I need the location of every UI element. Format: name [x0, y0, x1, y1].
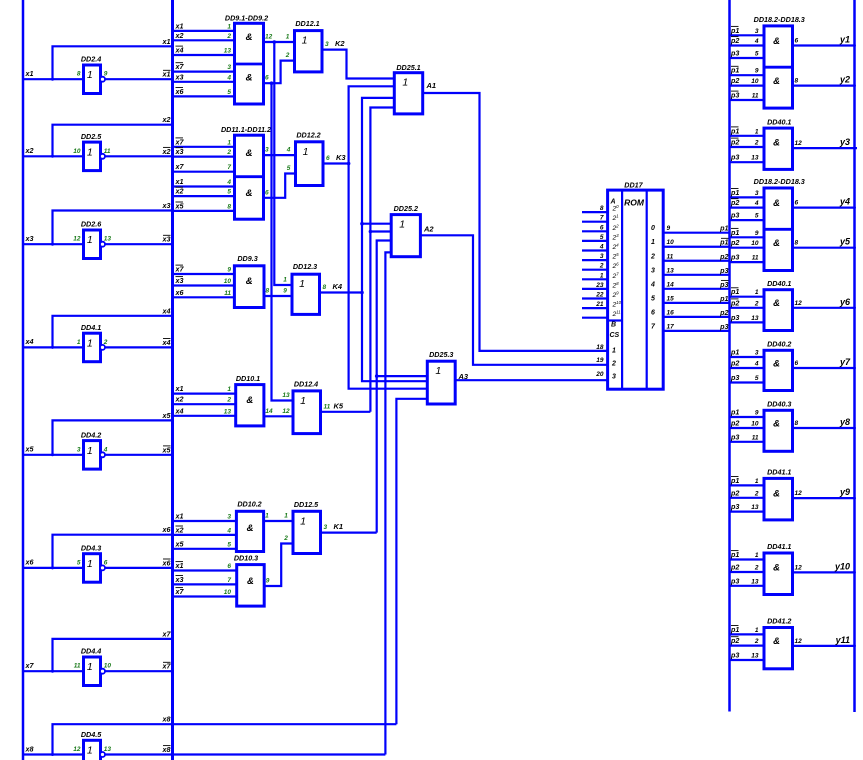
- wire DD9.2 output down to DD12.4 input 1: [272, 83, 294, 400]
- svg-text:5: 5: [755, 375, 759, 382]
- svg-text:6: 6: [600, 224, 604, 231]
- svg-text:x6: x6: [25, 558, 35, 567]
- svg-text:y8: y8: [839, 417, 850, 427]
- output gate DD18.2-DD18.3 (y1/y2): [730, 15, 856, 108]
- svg-text:3: 3: [325, 41, 329, 48]
- svg-text:p2: p2: [730, 563, 739, 572]
- svg-text:p3: p3: [730, 211, 739, 220]
- svg-text:y9: y9: [839, 487, 850, 497]
- svg-text:A1: A1: [426, 81, 437, 90]
- far-right output trunk line: [853, 0, 856, 712]
- svg-text:25: 25: [612, 252, 620, 261]
- junction K5 to DD25.2 input 2: [369, 230, 373, 234]
- output gate DD41.2 (y11): [730, 617, 856, 669]
- svg-text:DD17: DD17: [624, 181, 643, 190]
- svg-text:DD41.1: DD41.1: [767, 542, 791, 551]
- svg-text:p3: p3: [730, 373, 739, 382]
- svg-text:p1: p1: [730, 188, 739, 197]
- svg-text:1: 1: [283, 277, 287, 284]
- svg-text:p1: p1: [730, 126, 739, 135]
- AND gate DD9.1-DD9.2: [173, 14, 273, 104]
- svg-text:4: 4: [754, 38, 759, 45]
- svg-text:x1: x1: [175, 21, 184, 30]
- wire A3 from DD25.3 to ROM address input 3: [455, 379, 607, 381]
- svg-text:21: 21: [612, 214, 619, 223]
- OR gate DD12.5: [283, 500, 343, 554]
- svg-text:DD4.5: DD4.5: [81, 730, 102, 739]
- svg-text:3: 3: [324, 524, 328, 531]
- svg-text:1: 1: [87, 337, 93, 349]
- svg-text:1: 1: [87, 661, 93, 673]
- output gate DD41.1 (y10): [730, 542, 856, 594]
- svg-text:p2: p2: [730, 359, 739, 368]
- wire ROM output 1 (p1): [663, 238, 729, 247]
- svg-text:p3: p3: [730, 432, 739, 441]
- svg-text:&: &: [773, 76, 780, 87]
- svg-text:23: 23: [612, 233, 620, 242]
- wire DD11.1 output to DD12.2 input 1: [264, 154, 296, 156]
- svg-text:x3: x3: [175, 72, 184, 81]
- wire DD10.1 output to DD12.4 input 2: [264, 415, 293, 417]
- svg-text:1: 1: [755, 552, 759, 559]
- svg-text:DD12.5: DD12.5: [294, 500, 319, 509]
- svg-text:x2: x2: [175, 395, 184, 404]
- svg-text:x2: x2: [162, 147, 171, 156]
- svg-text:10: 10: [751, 240, 759, 247]
- svg-text:10: 10: [104, 663, 112, 670]
- svg-text:x3: x3: [162, 201, 171, 210]
- svg-text:DD10.2: DD10.2: [237, 500, 261, 509]
- svg-text:x2: x2: [162, 115, 171, 124]
- svg-text:&: &: [246, 148, 253, 159]
- svg-text:DD12.3: DD12.3: [293, 262, 317, 271]
- svg-text:&: &: [246, 395, 253, 406]
- svg-text:1: 1: [77, 339, 81, 346]
- svg-text:14: 14: [265, 408, 273, 415]
- svg-text:2: 2: [285, 52, 290, 59]
- x8-inverted vertical to DD25.2 input 4: [385, 252, 391, 754]
- svg-text:5: 5: [227, 89, 231, 96]
- svg-text:DD4.1: DD4.1: [81, 323, 101, 332]
- svg-text:2: 2: [283, 535, 288, 542]
- svg-text:1: 1: [755, 128, 759, 135]
- wire K1 branch to DD25.3 input 1: [377, 375, 428, 377]
- svg-text:DD10.3: DD10.3: [234, 553, 258, 562]
- svg-text:1: 1: [399, 219, 405, 231]
- svg-text:p2: p2: [730, 198, 739, 207]
- svg-text:DD12.2: DD12.2: [296, 131, 320, 140]
- wire ROM output 6 (p2): [663, 308, 729, 317]
- svg-text:28: 28: [612, 281, 620, 290]
- svg-text:15: 15: [667, 295, 675, 302]
- AND gate DD11.1-DD11.2: [173, 125, 272, 219]
- svg-text:5: 5: [755, 213, 759, 220]
- svg-text:y2: y2: [839, 75, 850, 85]
- svg-text:10: 10: [224, 589, 232, 596]
- svg-text:p1: p1: [730, 476, 739, 485]
- svg-text:x1: x1: [175, 512, 184, 521]
- svg-text:&: &: [247, 576, 254, 587]
- svg-text:p3: p3: [719, 266, 728, 275]
- right distribution trunk line (ROM outputs): [728, 0, 731, 712]
- svg-text:0: 0: [651, 225, 655, 232]
- svg-text:26: 26: [612, 262, 620, 271]
- svg-text:11: 11: [104, 148, 111, 155]
- svg-text:p3: p3: [730, 153, 739, 162]
- wire K1 from DD12.5: [321, 531, 377, 533]
- svg-text:A: A: [610, 199, 616, 206]
- svg-text:p2: p2: [730, 76, 739, 85]
- junction K3: [347, 162, 351, 166]
- svg-text:DD18.2-DD18.3: DD18.2-DD18.3: [754, 177, 805, 186]
- svg-text:8: 8: [795, 78, 799, 85]
- svg-text:12: 12: [795, 300, 803, 307]
- svg-text:1: 1: [303, 146, 309, 158]
- junction K1 to DD25.3 input 1: [375, 374, 379, 378]
- svg-text:27: 27: [612, 271, 620, 280]
- svg-text:2: 2: [754, 140, 759, 147]
- svg-text:6: 6: [265, 75, 269, 82]
- svg-text:3: 3: [227, 64, 231, 71]
- svg-text:x6: x6: [175, 288, 185, 297]
- AND gate DD10.3: [173, 553, 270, 606]
- svg-text:DD9.3: DD9.3: [237, 254, 257, 263]
- svg-text:13: 13: [751, 653, 759, 660]
- svg-text:DD2.6: DD2.6: [81, 220, 102, 229]
- svg-text:x2: x2: [175, 525, 184, 534]
- svg-text:x5: x5: [162, 411, 172, 420]
- svg-text:6: 6: [227, 563, 231, 570]
- svg-text:13: 13: [224, 48, 232, 55]
- junction DD9.1 output branch: [273, 40, 277, 44]
- svg-text:p1: p1: [730, 26, 739, 35]
- svg-text:DD4.2: DD4.2: [81, 430, 101, 439]
- svg-text:10: 10: [751, 78, 759, 85]
- svg-text:12: 12: [282, 408, 290, 415]
- svg-text:21: 21: [595, 301, 604, 308]
- svg-text:y5: y5: [839, 237, 851, 247]
- svg-text:DD11.1-DD11.2: DD11.1-DD11.2: [221, 125, 271, 134]
- svg-text:10: 10: [73, 148, 81, 155]
- svg-text:20: 20: [612, 204, 620, 213]
- svg-text:9: 9: [667, 225, 671, 232]
- svg-text:K5: K5: [334, 401, 344, 410]
- svg-text:A2: A2: [423, 225, 434, 234]
- svg-text:1: 1: [299, 278, 305, 290]
- svg-text:x4: x4: [25, 337, 34, 346]
- svg-text:DD40.3: DD40.3: [767, 400, 791, 409]
- svg-text:p3: p3: [730, 576, 739, 585]
- svg-text:2: 2: [650, 253, 655, 260]
- svg-text:2: 2: [611, 361, 616, 368]
- wire DD10.2 output to DD12.5 input 1: [264, 520, 293, 522]
- ROM DD17: [582, 181, 674, 390]
- svg-text:11: 11: [224, 290, 231, 297]
- svg-text:1: 1: [755, 627, 759, 634]
- svg-text:16: 16: [667, 309, 675, 316]
- svg-text:K2: K2: [335, 39, 345, 48]
- svg-text:p1: p1: [730, 228, 739, 237]
- svg-text:9: 9: [266, 578, 270, 585]
- middle distribution trunk line: [171, 0, 174, 760]
- svg-text:1: 1: [600, 272, 604, 279]
- svg-text:1: 1: [755, 478, 759, 485]
- svg-text:22: 22: [595, 292, 604, 299]
- svg-text:ROM: ROM: [624, 198, 645, 208]
- svg-text:3: 3: [227, 514, 231, 521]
- svg-text:p1: p1: [719, 294, 728, 303]
- svg-text:DD4.3: DD4.3: [81, 543, 101, 552]
- svg-text:DD18.2-DD18.3: DD18.2-DD18.3: [754, 15, 805, 24]
- svg-text:8: 8: [266, 288, 270, 295]
- svg-text:8: 8: [77, 71, 81, 78]
- svg-text:&: &: [773, 198, 780, 209]
- svg-text:13: 13: [751, 504, 759, 511]
- svg-text:x3: x3: [25, 234, 34, 243]
- svg-text:K4: K4: [333, 282, 343, 291]
- svg-text:9: 9: [283, 288, 287, 295]
- svg-text:4: 4: [650, 281, 655, 288]
- svg-text:6: 6: [651, 309, 655, 316]
- svg-text:p1: p1: [730, 625, 739, 634]
- svg-text:19: 19: [596, 357, 604, 364]
- svg-text:23: 23: [595, 282, 604, 289]
- svg-text:DD4.4: DD4.4: [81, 647, 101, 656]
- svg-text:5: 5: [755, 51, 759, 58]
- svg-text:p3: p3: [719, 280, 728, 289]
- svg-text:x2: x2: [175, 187, 184, 196]
- svg-text:1: 1: [87, 234, 93, 246]
- svg-text:11: 11: [752, 434, 759, 441]
- svg-text:p3: p3: [730, 313, 739, 322]
- svg-text:p2: p2: [730, 488, 739, 497]
- OR gate DD12.1: [285, 19, 346, 72]
- left input trunk line: [22, 0, 25, 760]
- inverter DD2.5 (x2): [23, 115, 173, 170]
- svg-text:x7: x7: [175, 162, 185, 171]
- svg-text:p3: p3: [730, 49, 739, 58]
- svg-text:x7: x7: [175, 137, 185, 146]
- svg-text:4: 4: [226, 527, 231, 534]
- svg-text:&: &: [246, 73, 253, 84]
- svg-text:p2: p2: [730, 238, 739, 247]
- svg-text:x1: x1: [162, 70, 171, 79]
- svg-text:p1: p1: [730, 287, 739, 296]
- svg-text:&: &: [246, 188, 253, 199]
- svg-text:2: 2: [226, 149, 231, 156]
- svg-text:8: 8: [323, 284, 327, 291]
- svg-text:10: 10: [667, 239, 675, 246]
- svg-text:3: 3: [600, 253, 604, 260]
- svg-text:8: 8: [600, 205, 604, 212]
- K5 vertical to DD25.1 input 4: [370, 108, 394, 412]
- svg-text:x3: x3: [162, 235, 171, 244]
- svg-text:9: 9: [227, 267, 231, 274]
- svg-text:6: 6: [795, 360, 799, 367]
- svg-text:CS: CS: [610, 332, 620, 339]
- svg-text:9: 9: [755, 230, 759, 237]
- AND gate DD9.3: [173, 254, 270, 308]
- svg-text:1: 1: [435, 365, 441, 377]
- svg-text:4: 4: [599, 244, 604, 251]
- svg-text:p2: p2: [730, 298, 739, 307]
- svg-text:1: 1: [755, 289, 759, 296]
- svg-text:x1: x1: [175, 561, 184, 570]
- svg-text:1: 1: [265, 513, 269, 520]
- OR gate DD12.3: [283, 262, 343, 314]
- svg-text:DD41.2: DD41.2: [767, 617, 791, 626]
- svg-text:13: 13: [751, 578, 759, 585]
- svg-text:2: 2: [754, 490, 759, 497]
- svg-text:K3: K3: [336, 153, 346, 162]
- svg-text:&: &: [773, 298, 780, 309]
- svg-text:1: 1: [284, 513, 288, 520]
- svg-text:1: 1: [612, 348, 616, 355]
- svg-text:5: 5: [227, 189, 231, 196]
- svg-text:DD40.1: DD40.1: [767, 117, 791, 126]
- svg-text:DD40.1: DD40.1: [767, 279, 791, 288]
- svg-text:DD9.1-DD9.2: DD9.1-DD9.2: [225, 14, 268, 23]
- svg-text:DD12.4: DD12.4: [294, 380, 318, 389]
- OR gate DD12.2: [286, 131, 347, 186]
- svg-text:18: 18: [596, 344, 604, 351]
- svg-text:13: 13: [224, 408, 232, 415]
- svg-text:x2: x2: [25, 146, 34, 155]
- wire DD9.3 output to DD12.3 input 2: [264, 295, 292, 297]
- svg-text:6: 6: [104, 559, 108, 566]
- svg-text:3: 3: [755, 28, 759, 35]
- svg-text:7: 7: [227, 164, 231, 171]
- svg-text:x6: x6: [175, 87, 185, 96]
- svg-text:7: 7: [651, 323, 656, 330]
- svg-text:20: 20: [595, 371, 604, 378]
- svg-text:8: 8: [227, 203, 231, 210]
- svg-text:4: 4: [286, 147, 291, 154]
- inverter DD4.4 (x7): [23, 629, 173, 685]
- svg-text:2: 2: [103, 339, 108, 346]
- inverter DD4.2 (x5): [23, 411, 173, 469]
- svg-text:x6: x6: [162, 558, 172, 567]
- svg-text:y7: y7: [839, 357, 851, 367]
- OR gate DD25.2: [391, 204, 434, 257]
- junction DD9.2 output branch: [270, 81, 274, 85]
- inverter DD4.5 (x8): [23, 715, 396, 760]
- svg-text:12: 12: [795, 490, 803, 497]
- svg-text:&: &: [247, 523, 254, 534]
- svg-text:5: 5: [77, 559, 81, 566]
- svg-text:1: 1: [227, 23, 231, 30]
- svg-text:p1: p1: [730, 550, 739, 559]
- svg-text:x7: x7: [175, 587, 185, 596]
- wire A1 from DD25.1 to ROM address input 1: [423, 93, 608, 351]
- svg-text:1: 1: [286, 33, 290, 40]
- svg-text:3: 3: [77, 446, 81, 453]
- svg-text:8: 8: [795, 420, 799, 427]
- output gate DD40.1 (y6): [730, 279, 856, 331]
- svg-text:p2: p2: [719, 252, 728, 261]
- svg-text:p1: p1: [719, 238, 728, 247]
- svg-text:5: 5: [227, 541, 231, 548]
- svg-text:10: 10: [751, 421, 759, 428]
- inverter DD2.6 (x3): [23, 201, 173, 259]
- svg-text:p1: p1: [730, 66, 739, 75]
- svg-text:210: 210: [612, 300, 622, 309]
- svg-text:4: 4: [226, 179, 231, 186]
- svg-text:K1: K1: [334, 522, 344, 531]
- svg-text:9: 9: [755, 410, 759, 417]
- junction K4: [360, 291, 364, 295]
- svg-text:6: 6: [795, 38, 799, 45]
- OR gate DD25.3: [427, 350, 469, 404]
- wire K2 from DD12.1 to DD25.1 input 1: [322, 50, 394, 79]
- svg-text:x4: x4: [162, 338, 171, 347]
- wire ROM output 3 (p3): [663, 266, 729, 275]
- K3 vertical to DD25.1 input 2 and DD25.3 input 3: [349, 86, 428, 388]
- svg-text:y6: y6: [839, 297, 851, 307]
- wire DD10.3 output to DD12.5 input 2: [264, 544, 293, 587]
- svg-text:12: 12: [795, 140, 803, 147]
- svg-text:12: 12: [795, 564, 803, 571]
- svg-text:17: 17: [667, 323, 675, 330]
- svg-text:&: &: [773, 419, 780, 430]
- svg-text:12: 12: [73, 236, 81, 243]
- svg-text:211: 211: [612, 310, 621, 319]
- svg-text:&: &: [773, 563, 780, 574]
- svg-text:4: 4: [754, 361, 759, 368]
- svg-text:p3: p3: [730, 253, 739, 262]
- svg-text:x4: x4: [175, 406, 184, 415]
- OR gate DD12.4: [282, 380, 344, 434]
- svg-text:13: 13: [667, 267, 675, 274]
- svg-text:6: 6: [265, 189, 269, 196]
- wire ROM output 2 (p2): [663, 252, 729, 261]
- svg-text:p2: p2: [730, 636, 739, 645]
- wire K4 branch to DD25.2 input 1: [362, 223, 391, 225]
- svg-text:3: 3: [612, 374, 616, 381]
- wire DD9.1 output down to DD12.3 input 1: [274, 42, 292, 285]
- svg-text:1: 1: [227, 139, 231, 146]
- svg-text:14: 14: [667, 281, 675, 288]
- svg-text:22: 22: [612, 223, 620, 232]
- svg-text:1: 1: [300, 395, 306, 407]
- svg-text:DD25.3: DD25.3: [429, 350, 453, 359]
- svg-text:12: 12: [73, 746, 81, 753]
- svg-text:24: 24: [612, 243, 620, 252]
- svg-text:p3: p3: [730, 91, 739, 100]
- wire ROM output 4 (p3): [663, 280, 729, 289]
- K1 vertical to DD25.2 input 3: [377, 241, 392, 533]
- svg-text:x5: x5: [175, 201, 185, 210]
- output gate DD41.1 (y9): [730, 468, 856, 520]
- svg-text:1: 1: [302, 35, 308, 47]
- output gate DD40.2 (y7): [730, 340, 856, 391]
- AND gate DD10.2: [173, 500, 270, 552]
- wire ROM output 0 (p1): [663, 224, 729, 233]
- svg-text:1: 1: [87, 745, 93, 757]
- svg-text:x1: x1: [162, 37, 171, 46]
- wire K3 from DD12.2: [323, 162, 349, 164]
- svg-text:x8: x8: [25, 744, 34, 753]
- svg-text:x5: x5: [175, 539, 185, 548]
- svg-text:p2: p2: [730, 36, 739, 45]
- svg-text:10: 10: [224, 278, 232, 285]
- svg-text:13: 13: [104, 746, 112, 753]
- svg-text:x3: x3: [175, 575, 184, 584]
- svg-text:x7: x7: [175, 62, 185, 71]
- svg-text:1: 1: [87, 69, 93, 81]
- svg-text:x4: x4: [162, 306, 171, 315]
- output gate DD40.3 (y8): [730, 400, 856, 452]
